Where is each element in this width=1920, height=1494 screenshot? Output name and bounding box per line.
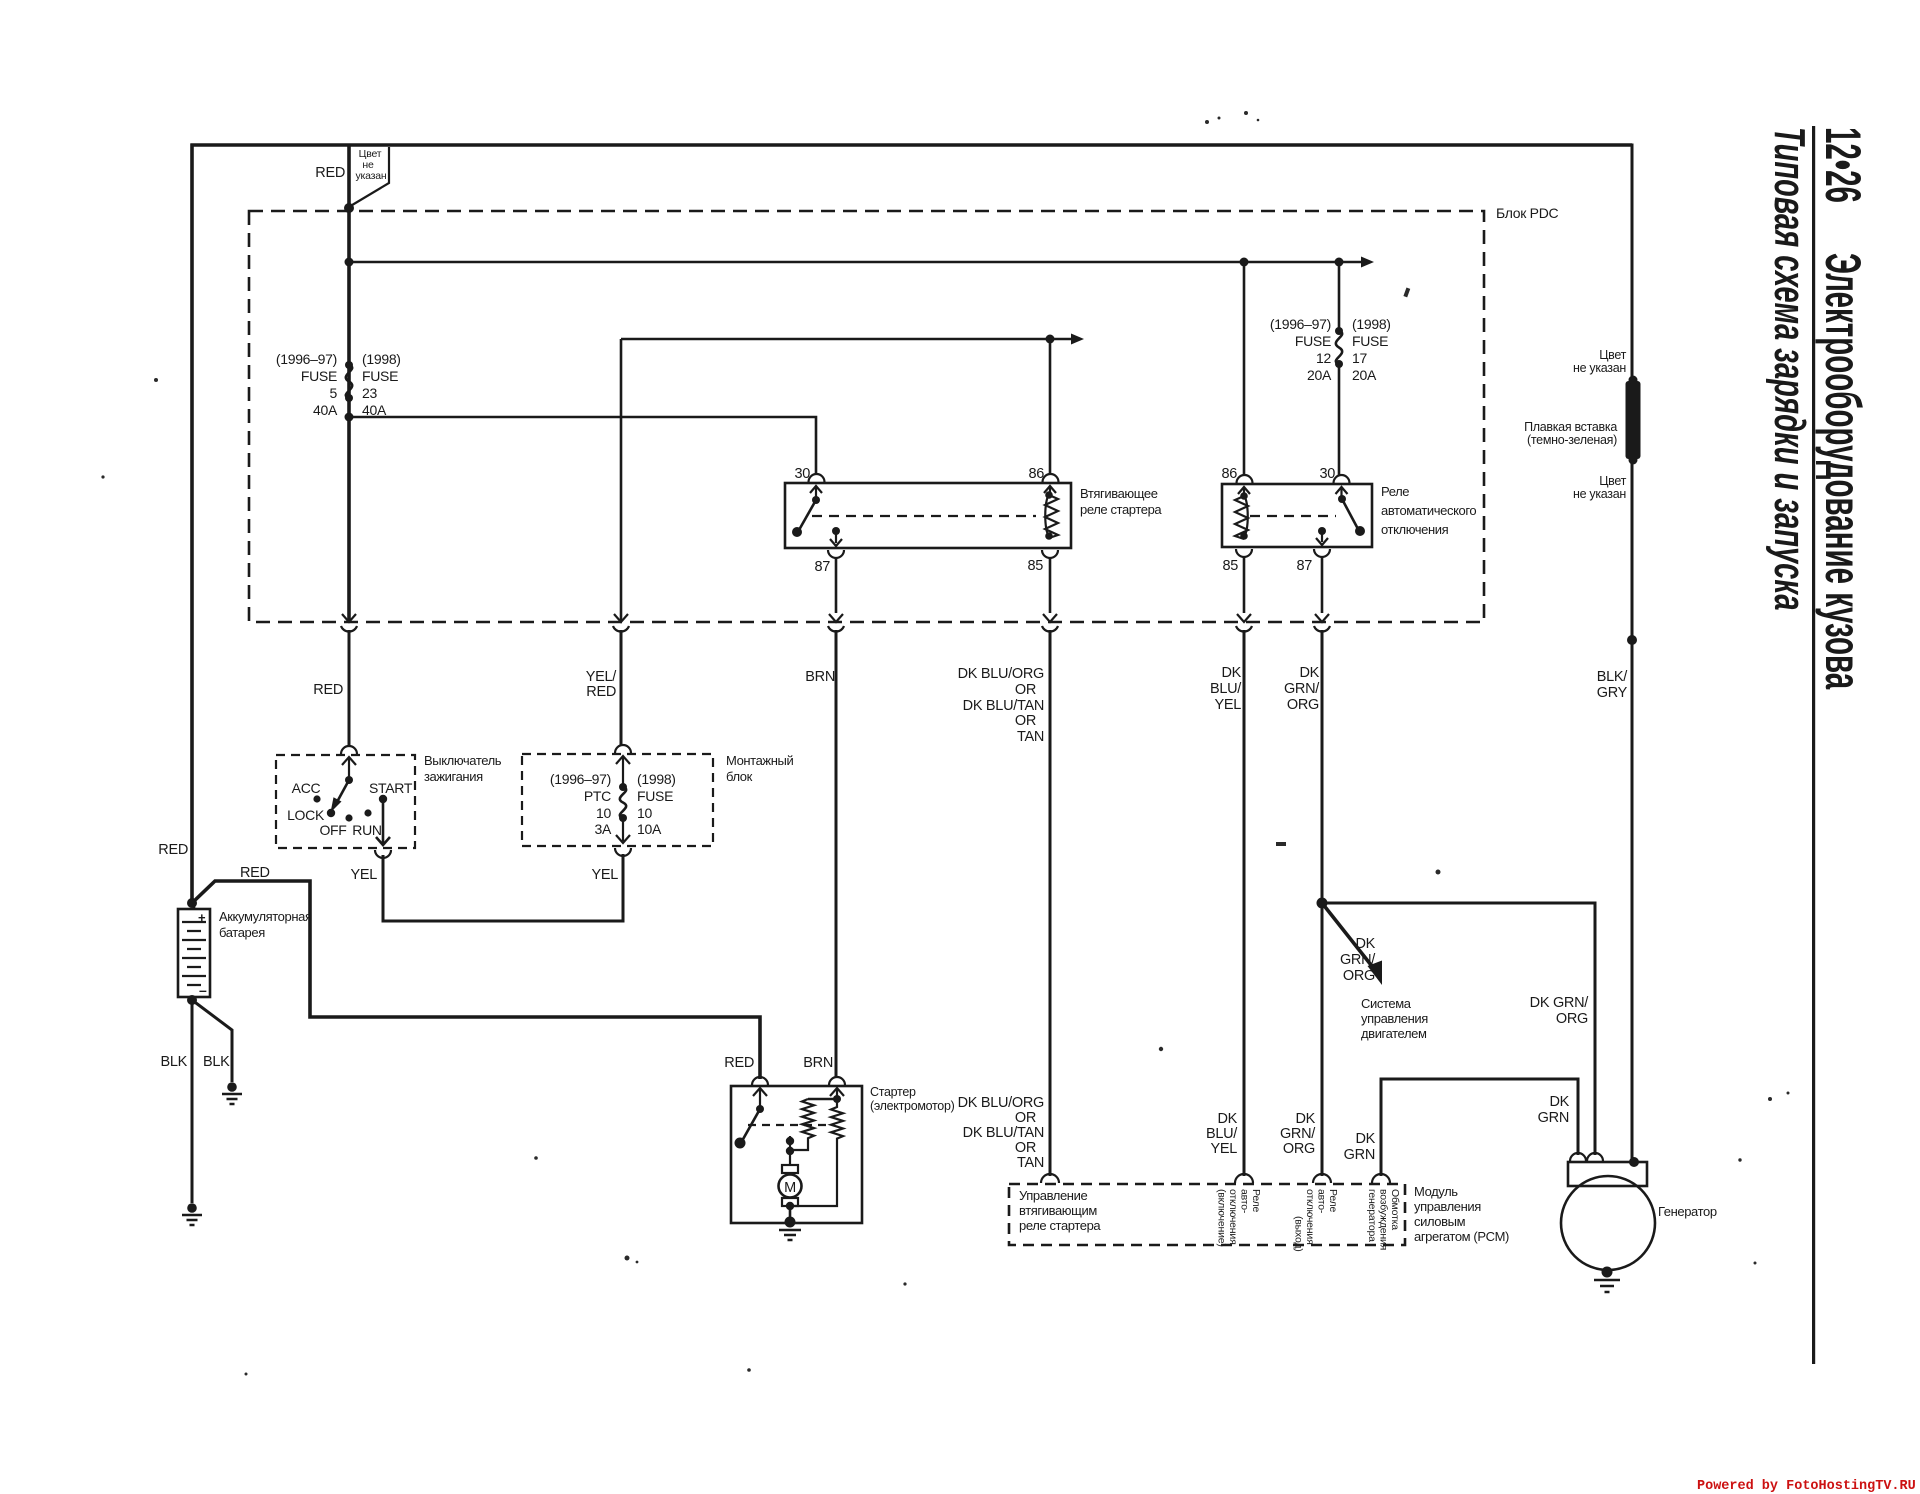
svg-text:DK: DK xyxy=(1295,1111,1315,1127)
label DK BLU/YEL (lower) xyxy=(1206,1111,1238,1157)
relay U1 coil (86-85) xyxy=(1045,491,1058,540)
heading: 12.26 Электрооборудование кузова xyxy=(1815,127,1871,690)
svg-text:23: 23 xyxy=(362,385,377,401)
relay U1 pin 87 bottom arc xyxy=(828,550,844,558)
label YEL (left) xyxy=(350,867,377,883)
svg-text:(1998): (1998) xyxy=(637,771,676,787)
svg-text:Powered by FotoHostingTV.RU: Powered by FotoHostingTV.RU xyxy=(1697,1479,1916,1494)
svg-text:BLK: BLK xyxy=(160,1054,187,1070)
svg-text:Цвет: Цвет xyxy=(1599,474,1626,488)
relay U1 pin 87 contact dot and exit arrow xyxy=(830,527,842,546)
svg-text:батарея: батарея xyxy=(219,925,265,940)
svg-text:Управление: Управление xyxy=(1019,1188,1087,1203)
relay U2 pin 30 connector arc xyxy=(1334,475,1350,483)
generator body circle xyxy=(1561,1176,1655,1270)
svg-text:Обмоткавозбуждениягенератора: Обмоткавозбуждениягенератора xyxy=(1366,1189,1401,1250)
label DK GRN (right) xyxy=(1538,1094,1570,1126)
label DK BLU/ORG OR DK BLU/TAN OR TAN (lower) xyxy=(958,1095,1044,1171)
svg-text:17: 17 xyxy=(1352,350,1367,366)
PCM entry arc x=1050 xyxy=(1041,1174,1059,1183)
PCM module: dashed box xyxy=(1009,1184,1405,1245)
wire x=1050 from PDC to PCM xyxy=(1049,630,1052,1176)
fuse PTC10/F10 symbol xyxy=(619,783,627,822)
svg-text:BRN: BRN xyxy=(803,1055,833,1071)
label: relay U1 pin numbers top xyxy=(794,466,1044,482)
label: Аккумуляторная батарея xyxy=(219,909,312,940)
junction: bus1 at fuse17 wire xyxy=(1335,258,1344,267)
wire BLK: battery negative diagonal to right ground xyxy=(192,1000,232,1082)
junction: bus1 at fuse12 wire xyxy=(1240,258,1249,267)
label RED (below PDC) xyxy=(313,682,343,698)
svg-text:10: 10 xyxy=(596,805,611,821)
svg-text:40A: 40A xyxy=(362,402,387,418)
label BLK/GRY xyxy=(1597,669,1629,701)
relay U2 pin 86 entry arrow xyxy=(1238,487,1250,494)
svg-text:BLK: BLK xyxy=(203,1054,230,1070)
mounting block entry arc xyxy=(615,745,631,753)
ignition switch exit arc xyxy=(375,850,391,858)
svg-text:YEL: YEL xyxy=(1214,697,1241,713)
svg-text:DK BLU/ORG: DK BLU/ORG xyxy=(958,1095,1044,1111)
wire: relay U1 pin85 to PDC edge xyxy=(1049,557,1052,613)
label: Система управления двигателем xyxy=(1361,996,1428,1041)
starter entry arrow BRN xyxy=(830,1088,844,1098)
wire RED x=349 from PDC to ignition switch xyxy=(348,630,351,746)
svg-text:ORG: ORG xyxy=(1556,1011,1588,1027)
label: fuse PTC column (1996-97) xyxy=(550,771,612,837)
svg-text:Стартер: Стартер xyxy=(870,1085,916,1099)
wire YEL: from switch down, right to mounting block YEL xyxy=(383,854,623,921)
svg-text:отключения: отключения xyxy=(1381,522,1449,537)
svg-text:30: 30 xyxy=(794,466,810,482)
svg-text:GRN: GRN xyxy=(1538,1110,1569,1126)
svg-text:DK: DK xyxy=(1217,1111,1237,1127)
svg-text:YEL: YEL xyxy=(350,867,377,883)
svg-text:агрегатом (PCM): агрегатом (PCM) xyxy=(1414,1229,1509,1244)
motor M1: brush, armature circle, brush xyxy=(779,1165,802,1206)
relay U2 pin 30 entry arrow xyxy=(1336,487,1348,499)
svg-text:FUSE: FUSE xyxy=(362,368,398,384)
svg-text:YEL: YEL xyxy=(591,867,618,883)
svg-text:силовым: силовым xyxy=(1414,1214,1466,1229)
ignition switch entry arrow xyxy=(342,757,356,780)
junction: battery negative node xyxy=(187,995,197,1005)
junction: battery positive node xyxy=(187,898,197,908)
svg-text:–: – xyxy=(199,982,207,998)
label: Стартер (электромотор) xyxy=(870,1085,955,1113)
wire: YEL/RED vertical x=621 xyxy=(620,339,623,621)
svg-text:GRN/: GRN/ xyxy=(1280,1126,1316,1142)
svg-text:(1996–97): (1996–97) xyxy=(550,771,611,787)
footer: Powered by FotoHostingTV.RU xyxy=(1697,1479,1916,1494)
svg-text:DK BLU/TAN: DK BLU/TAN xyxy=(963,698,1044,714)
svg-text:GRY: GRY xyxy=(1597,685,1628,701)
label DK GRN/ORG (lower, at PCM) xyxy=(1280,1111,1316,1157)
label (rotated): Реле авто-отключения (выход) xyxy=(1293,1189,1340,1252)
label: relay U2 pin numbers bottom xyxy=(1222,558,1312,574)
mounting block: dashed box xyxy=(522,754,713,846)
relay U2: auto shutdown relay box xyxy=(1222,484,1372,547)
svg-text:DK GRN/: DK GRN/ xyxy=(1530,995,1590,1011)
svg-text:OFF: OFF xyxy=(319,822,346,838)
svg-text:LOCK: LOCK xyxy=(287,807,325,823)
svg-text:10: 10 xyxy=(637,805,652,821)
PDC exit crossing x=836 xyxy=(828,614,844,632)
svg-text:OR: OR xyxy=(1015,1140,1036,1156)
svg-text:(темно-зеленая): (темно-зеленая) xyxy=(1527,433,1617,447)
svg-text:DK: DK xyxy=(1299,665,1319,681)
fusible link (dark green) xyxy=(1626,376,1641,465)
svg-text:DK: DK xyxy=(1355,1131,1375,1147)
relay U1: starter solenoid relay box xyxy=(785,483,1071,548)
svg-text:BLU/: BLU/ xyxy=(1206,1126,1238,1142)
svg-text:86: 86 xyxy=(1221,466,1237,482)
starter switch: pivot, lever, contact dot xyxy=(735,1105,765,1149)
svg-text:85: 85 xyxy=(1222,558,1238,574)
label RED (starter feed) xyxy=(724,1055,754,1071)
svg-text:RUN: RUN xyxy=(352,822,381,838)
svg-text:20A: 20A xyxy=(1352,367,1377,383)
relay U2 pin 87 bottom arc xyxy=(1314,549,1330,557)
svg-text:блок: блок xyxy=(726,769,753,784)
label BLK BLK xyxy=(160,1054,230,1070)
label: Выключатель зажигания xyxy=(424,753,502,784)
ignition switch position dots xyxy=(313,795,387,822)
label: fuse F17 column (1998) xyxy=(1352,316,1391,383)
svg-text:10A: 10A xyxy=(637,821,662,837)
label: Цвет не указан (top) xyxy=(355,148,386,182)
wire: right main vertical (to generator) xyxy=(1631,144,1634,1163)
wire x=1244 from PDC to PCM xyxy=(1243,630,1246,1176)
svg-text:START: START xyxy=(369,780,413,796)
wire DK GRN/ORG: splice to generator (down right) xyxy=(1322,903,1595,1155)
PCM entry arc x=1381 xyxy=(1372,1174,1390,1183)
svg-text:реле стартера: реле стартера xyxy=(1080,502,1162,517)
node A: callout leader (Цвет не указан, top) xyxy=(351,147,390,206)
block PDC: dashed box xyxy=(249,211,1484,622)
svg-text:+: + xyxy=(198,910,206,925)
svg-text:12: 12 xyxy=(1316,350,1331,366)
label: fuse F12 column (1996-97) xyxy=(1270,316,1332,383)
wire: relay U2 pin85 to PDC edge xyxy=(1243,556,1246,613)
svg-text:DK: DK xyxy=(1221,665,1241,681)
svg-text:RED: RED xyxy=(315,165,345,181)
generator terminal arc (DK GRN/ORG) xyxy=(1587,1153,1603,1161)
wire x=1322 from PDC to PCM xyxy=(1321,630,1324,1176)
label: relay U1 pin numbers bottom xyxy=(814,558,1043,575)
label DK BLU/ORG OR DK BLU/TAN OR TAN (upper) xyxy=(958,666,1044,745)
relay U2 switch: pivot dot, lever, contact dot xyxy=(1338,495,1365,536)
junction: bus1 at RED wire xyxy=(345,258,354,267)
wire: top border bus (battery + feed) xyxy=(191,143,1633,147)
relay U2 pin 86 connector arc xyxy=(1237,475,1253,483)
svg-text:3A: 3A xyxy=(594,821,611,837)
junction: y417 branch at RED wire xyxy=(345,413,354,422)
starter entry arrow RED xyxy=(753,1088,767,1109)
svg-text:YEL/: YEL/ xyxy=(586,669,618,685)
svg-text:PTC: PTC xyxy=(584,788,611,804)
svg-text:TAN: TAN xyxy=(1017,1155,1044,1171)
label DK GRN (left) xyxy=(1344,1131,1376,1163)
junction: bus2 at relay1-86 drop xyxy=(1046,335,1055,344)
PDC exit crossing x=1322 xyxy=(1314,614,1330,632)
label: Модуль управления силовым агрегатом (PCM) xyxy=(1414,1184,1509,1244)
svg-text:86: 86 xyxy=(1028,466,1044,482)
svg-text:(1998): (1998) xyxy=(1352,316,1391,332)
svg-text:Модуль: Модуль xyxy=(1414,1184,1458,1199)
svg-text:12•26: 12•26 xyxy=(1815,127,1871,203)
label: Управление втягивающим реле стартера xyxy=(1019,1188,1101,1233)
svg-text:Втягивающее: Втягивающее xyxy=(1080,486,1158,501)
junction: BRN node top of windings xyxy=(833,1095,841,1103)
svg-text:Типовая схема зарядки и запуск: Типовая схема зарядки и запуска xyxy=(1766,127,1816,611)
svg-text:(электромотор): (электромотор) xyxy=(870,1099,955,1113)
svg-text:DK: DK xyxy=(1355,936,1375,952)
ground: right (short BLK) xyxy=(222,1082,242,1104)
svg-text:RED: RED xyxy=(240,865,270,881)
junction: motor negative node xyxy=(786,1202,794,1210)
svg-text:Плавкая вставка: Плавкая вставка xyxy=(1524,420,1617,434)
svg-text:(1998): (1998) xyxy=(362,351,401,367)
wire: motor to ground xyxy=(789,1206,792,1221)
wire: START contact down and out of switch xyxy=(376,801,390,845)
label: Монтажный блок xyxy=(726,753,793,784)
relay U1 pin 30 connector arc xyxy=(809,474,825,482)
svg-text:RED: RED xyxy=(586,684,616,700)
label BRN (upper) xyxy=(805,669,835,685)
wire: relay U2 pin87 to PDC edge xyxy=(1321,556,1324,613)
svg-text:DK BLU/ORG: DK BLU/ORG xyxy=(958,666,1044,682)
junction: RED wire at PDC top edge xyxy=(344,203,354,213)
heading: Типовая схема зарядки и запуска xyxy=(1766,127,1816,611)
svg-text:Электрооборудование кузова: Электрооборудование кузова xyxy=(1815,253,1871,690)
PDC exit crossing x=349 (arrow + arc) xyxy=(341,614,357,632)
wire: bus1 y=262 with arrow xyxy=(349,257,1374,268)
wire DK GRN/ORG: arrow to engine control system xyxy=(1322,903,1382,985)
wire DK GRN: generator field to PCM xyxy=(1381,1079,1578,1176)
svg-text:40A: 40A xyxy=(313,402,338,418)
svg-text:Цвет: Цвет xyxy=(1599,348,1626,362)
label: Реле автоматического отключения xyxy=(1381,484,1476,537)
label YEL/RED xyxy=(586,669,618,700)
wire BLK: battery negative to left ground xyxy=(191,1000,194,1203)
label BRN (starter) xyxy=(803,1055,833,1071)
svg-text:управления: управления xyxy=(1361,1011,1428,1026)
scan noise specks xyxy=(101,111,1789,1376)
label RED (battery branch) xyxy=(240,865,270,881)
svg-text:FUSE: FUSE xyxy=(1295,333,1331,349)
PDC exit crossing x=621 xyxy=(613,614,629,632)
generator terminal arc (DK GRN) xyxy=(1570,1153,1586,1161)
svg-text:BLK/: BLK/ xyxy=(1597,669,1629,685)
wire: branch y=417 from RED wire to relay1 pin30 xyxy=(349,417,816,474)
svg-text:ORG: ORG xyxy=(1343,968,1375,984)
label DK BLU/YEL (upper) xyxy=(1210,665,1242,713)
svg-text:DK: DK xyxy=(1549,1094,1569,1110)
svg-text:ACC: ACC xyxy=(292,780,321,796)
ignition switch pivot and lever xyxy=(331,776,354,813)
relay U1 pin 30 entry arrow xyxy=(810,486,822,500)
starter entry arc RED xyxy=(752,1077,768,1085)
wire: relay2 pin86 drop x=1244 xyxy=(1243,262,1246,476)
svg-text:Релеавто-отключения(выход): Релеавто-отключения(выход) xyxy=(1293,1189,1340,1252)
wire BRN x=836 from PDC to starter xyxy=(835,630,838,1078)
battery: case and plates xyxy=(178,903,210,1001)
label (rotated): Реле авто-отключения (включение) xyxy=(1216,1189,1263,1247)
relay U1 internal dashed link xyxy=(812,515,1036,517)
svg-text:реле стартера: реле стартера xyxy=(1019,1218,1101,1233)
label: relay U2 pin numbers top xyxy=(1221,466,1335,482)
relay U2 pin 87 contact dot and exit arrow xyxy=(1316,527,1328,545)
label YEL (right) xyxy=(591,867,618,883)
wire RED: main vertical from top border into PDC xyxy=(347,145,351,621)
svg-text:87: 87 xyxy=(814,559,830,575)
svg-text:Релеавто-отключения(включение): Релеавто-отключения(включение) xyxy=(1216,1189,1263,1247)
mounting block entry arrow xyxy=(616,756,630,787)
relay U1 pin 86 connector arc xyxy=(1043,474,1059,482)
svg-text:FUSE: FUSE xyxy=(637,788,673,804)
ignition switch entry arc xyxy=(341,746,357,754)
svg-text:5: 5 xyxy=(330,385,338,401)
wire: winding top link xyxy=(808,1098,837,1101)
label DK GRN/ORG (upper) xyxy=(1284,665,1320,713)
junction: splice on right main wire xyxy=(1627,635,1637,645)
relay U1 pin 85 bottom arc xyxy=(1042,550,1058,558)
svg-text:двигателем: двигателем xyxy=(1361,1026,1427,1041)
wire: bus2 y=339 (YEL/RED to relay1 pin86) with arrow xyxy=(621,334,1084,345)
label: battery plus/minus xyxy=(198,910,207,998)
svg-text:Монтажный: Монтажный xyxy=(726,753,793,768)
ground: left (battery BLK) xyxy=(182,1203,202,1225)
wire: relay1 pin86 drop x=1050 xyxy=(1049,339,1052,474)
svg-text:Генератор: Генератор xyxy=(1658,1204,1717,1219)
label: Генератор xyxy=(1658,1204,1717,1219)
label RED (top) xyxy=(315,165,345,181)
svg-text:Система: Система xyxy=(1361,996,1412,1011)
svg-text:BRN: BRN xyxy=(805,669,835,685)
svg-text:M: M xyxy=(784,1180,796,1196)
label: Втягивающее реле стартера xyxy=(1080,486,1162,517)
label: Цвет не указан (below fusible link) xyxy=(1573,474,1627,501)
svg-text:OR: OR xyxy=(1015,713,1036,729)
svg-text:втягивающим: втягивающим xyxy=(1019,1203,1097,1218)
fuse F12/F17 (20A) symbol xyxy=(1335,327,1343,368)
svg-text:85: 85 xyxy=(1027,558,1043,574)
label: switch positions xyxy=(287,780,413,838)
svg-text:RED: RED xyxy=(158,842,188,858)
svg-text:(1996–97): (1996–97) xyxy=(1270,316,1331,332)
svg-text:не указан: не указан xyxy=(1573,361,1626,375)
wire YEL/RED x=621 from PDC to mounting block xyxy=(620,630,623,745)
svg-text:Блок PDC: Блок PDC xyxy=(1496,205,1559,221)
svg-text:DK BLU/TAN: DK BLU/TAN xyxy=(963,1125,1044,1141)
svg-text:87: 87 xyxy=(1296,558,1312,574)
starter hold-in winding (right coil on BRN wire) xyxy=(794,1098,843,1206)
svg-text:управления: управления xyxy=(1414,1199,1481,1214)
PDC exit crossing x=1050 xyxy=(1042,614,1058,632)
svg-text:OR: OR xyxy=(1015,1110,1036,1126)
svg-text:BLU/: BLU/ xyxy=(1210,681,1242,697)
svg-text:30: 30 xyxy=(1319,466,1335,482)
ground: starter xyxy=(779,1217,801,1241)
svg-text:Выключатель: Выключатель xyxy=(424,753,502,768)
label: Блок PDC xyxy=(1496,205,1559,221)
svg-text:зажигания: зажигания xyxy=(424,769,483,784)
svg-text:не указан: не указан xyxy=(1573,487,1626,501)
label RED (left border, above battery) xyxy=(158,842,188,858)
ignition switch: dashed box xyxy=(276,755,415,848)
relay U2 pin 85 bottom arc xyxy=(1236,549,1252,557)
relay U1 pin 86 entry arrow xyxy=(1044,486,1056,493)
starter motor box xyxy=(731,1086,862,1223)
PCM entry arc x=1322 xyxy=(1313,1174,1331,1183)
svg-text:FUSE: FUSE xyxy=(1352,333,1388,349)
label: fuse F23 column (1998) xyxy=(362,351,401,418)
starter internal dashed link xyxy=(748,1124,832,1126)
svg-text:20A: 20A xyxy=(1307,367,1332,383)
starter contact stub dots xyxy=(786,1136,794,1165)
svg-text:TAN: TAN xyxy=(1017,729,1044,745)
relay U2 internal dashed link xyxy=(1250,515,1336,517)
wire: relay2 pin30 drop x=1339 through fuse xyxy=(1338,262,1341,476)
PCM entry arc x=1244 xyxy=(1235,1174,1253,1183)
label DK GRN/ORG (at arrow) xyxy=(1340,936,1376,984)
junction: main feed at generator cap xyxy=(1629,1157,1639,1167)
label (rotated): Обмотка возбуждения генератора xyxy=(1366,1189,1401,1250)
label: fuse F5 column (1996-97) xyxy=(276,351,338,418)
svg-text:FUSE: FUSE xyxy=(301,368,337,384)
mounting block exit arrow and arc xyxy=(615,818,631,856)
wire: relay U1 pin87 to PDC edge xyxy=(835,557,838,613)
svg-text:ORG: ORG xyxy=(1287,697,1319,713)
ground: generator xyxy=(1594,1267,1620,1293)
heading rule (vertical line) xyxy=(1812,126,1815,1364)
starter pull-in winding (left coil) xyxy=(791,1099,814,1150)
label: Плавкая вставка (темно-зеленая) xyxy=(1524,420,1617,447)
fuse F5/F23 (40A) symbol on RED wire xyxy=(345,361,353,402)
svg-text:указан: указан xyxy=(355,170,386,182)
svg-text:RED: RED xyxy=(724,1055,754,1071)
svg-text:Аккумуляторная: Аккумуляторная xyxy=(219,909,312,924)
svg-text:Реле: Реле xyxy=(1381,484,1409,499)
svg-text:ORG: ORG xyxy=(1283,1141,1315,1157)
svg-text:автоматического: автоматического xyxy=(1381,503,1476,518)
svg-text:GRN: GRN xyxy=(1344,1147,1375,1163)
relay U1 switch: pivot dot, lever, contact dot xyxy=(792,496,820,537)
svg-text:(1996–97): (1996–97) xyxy=(276,351,337,367)
junction: DK GRN/ORG splice node xyxy=(1317,898,1328,909)
relay U2 coil (86-85) xyxy=(1235,492,1248,540)
svg-text:YEL: YEL xyxy=(1210,1141,1237,1157)
svg-text:RED: RED xyxy=(313,682,343,698)
starter entry arc BRN xyxy=(829,1077,845,1085)
svg-text:GRN/: GRN/ xyxy=(1284,681,1320,697)
label DK GRN/ORG (right, at generator drop) xyxy=(1530,995,1590,1027)
svg-text:GRN/: GRN/ xyxy=(1340,952,1376,968)
svg-text:OR: OR xyxy=(1015,682,1036,698)
wire: left border (RED battery positive) xyxy=(190,144,194,902)
wire RED: battery positive branch to starter xyxy=(192,881,760,1079)
label: Цвет не указан (above fusible link) xyxy=(1573,348,1627,375)
PDC exit crossing x=1244 xyxy=(1236,614,1252,632)
generator: terminal cap xyxy=(1568,1162,1647,1186)
label: fuse F10 column (1998) xyxy=(637,771,676,837)
